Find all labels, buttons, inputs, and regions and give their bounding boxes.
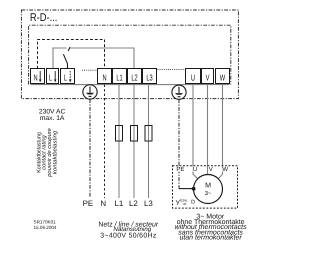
svg-text:SR170K01: SR170K01 <box>34 220 57 225</box>
svg-text:L: L <box>64 73 67 83</box>
svg-text:L2: L2 <box>131 73 137 83</box>
svg-text:R-D-...: R-D-... <box>30 12 58 24</box>
svg-text:utan termokontakter: utan termokontakter <box>179 234 242 242</box>
svg-text:V: V <box>209 166 213 173</box>
svg-text:V: V <box>206 73 210 83</box>
svg-text:W: W <box>220 73 226 83</box>
svg-text:L2: L2 <box>129 199 138 208</box>
svg-text:N: N <box>100 199 106 208</box>
svg-text:L3: L3 <box>146 73 152 83</box>
svg-text:L1: L1 <box>116 73 122 83</box>
svg-text:U: U <box>191 73 195 83</box>
svg-text:N: N <box>33 73 37 83</box>
svg-text:L1: L1 <box>115 199 124 208</box>
svg-text:PE: PE <box>176 166 184 173</box>
svg-text:max. 1A: max. 1A <box>40 115 65 122</box>
svg-text:PE: PE <box>83 199 94 208</box>
svg-text:3~400V 50/60Hz: 3~400V 50/60Hz <box>100 233 157 240</box>
svg-text:D: D <box>191 199 195 205</box>
svg-text:M: M <box>205 181 211 189</box>
svg-text:L: L <box>49 73 52 83</box>
svg-text:W: W <box>222 166 228 173</box>
svg-text:L3: L3 <box>144 199 153 208</box>
svg-text:kontaktbelasting: kontaktbelasting <box>52 130 59 174</box>
svg-text:N: N <box>102 73 106 83</box>
svg-text:15.06.2004: 15.06.2004 <box>34 225 57 230</box>
svg-text:3~: 3~ <box>205 190 212 197</box>
svg-text:U: U <box>193 166 197 173</box>
